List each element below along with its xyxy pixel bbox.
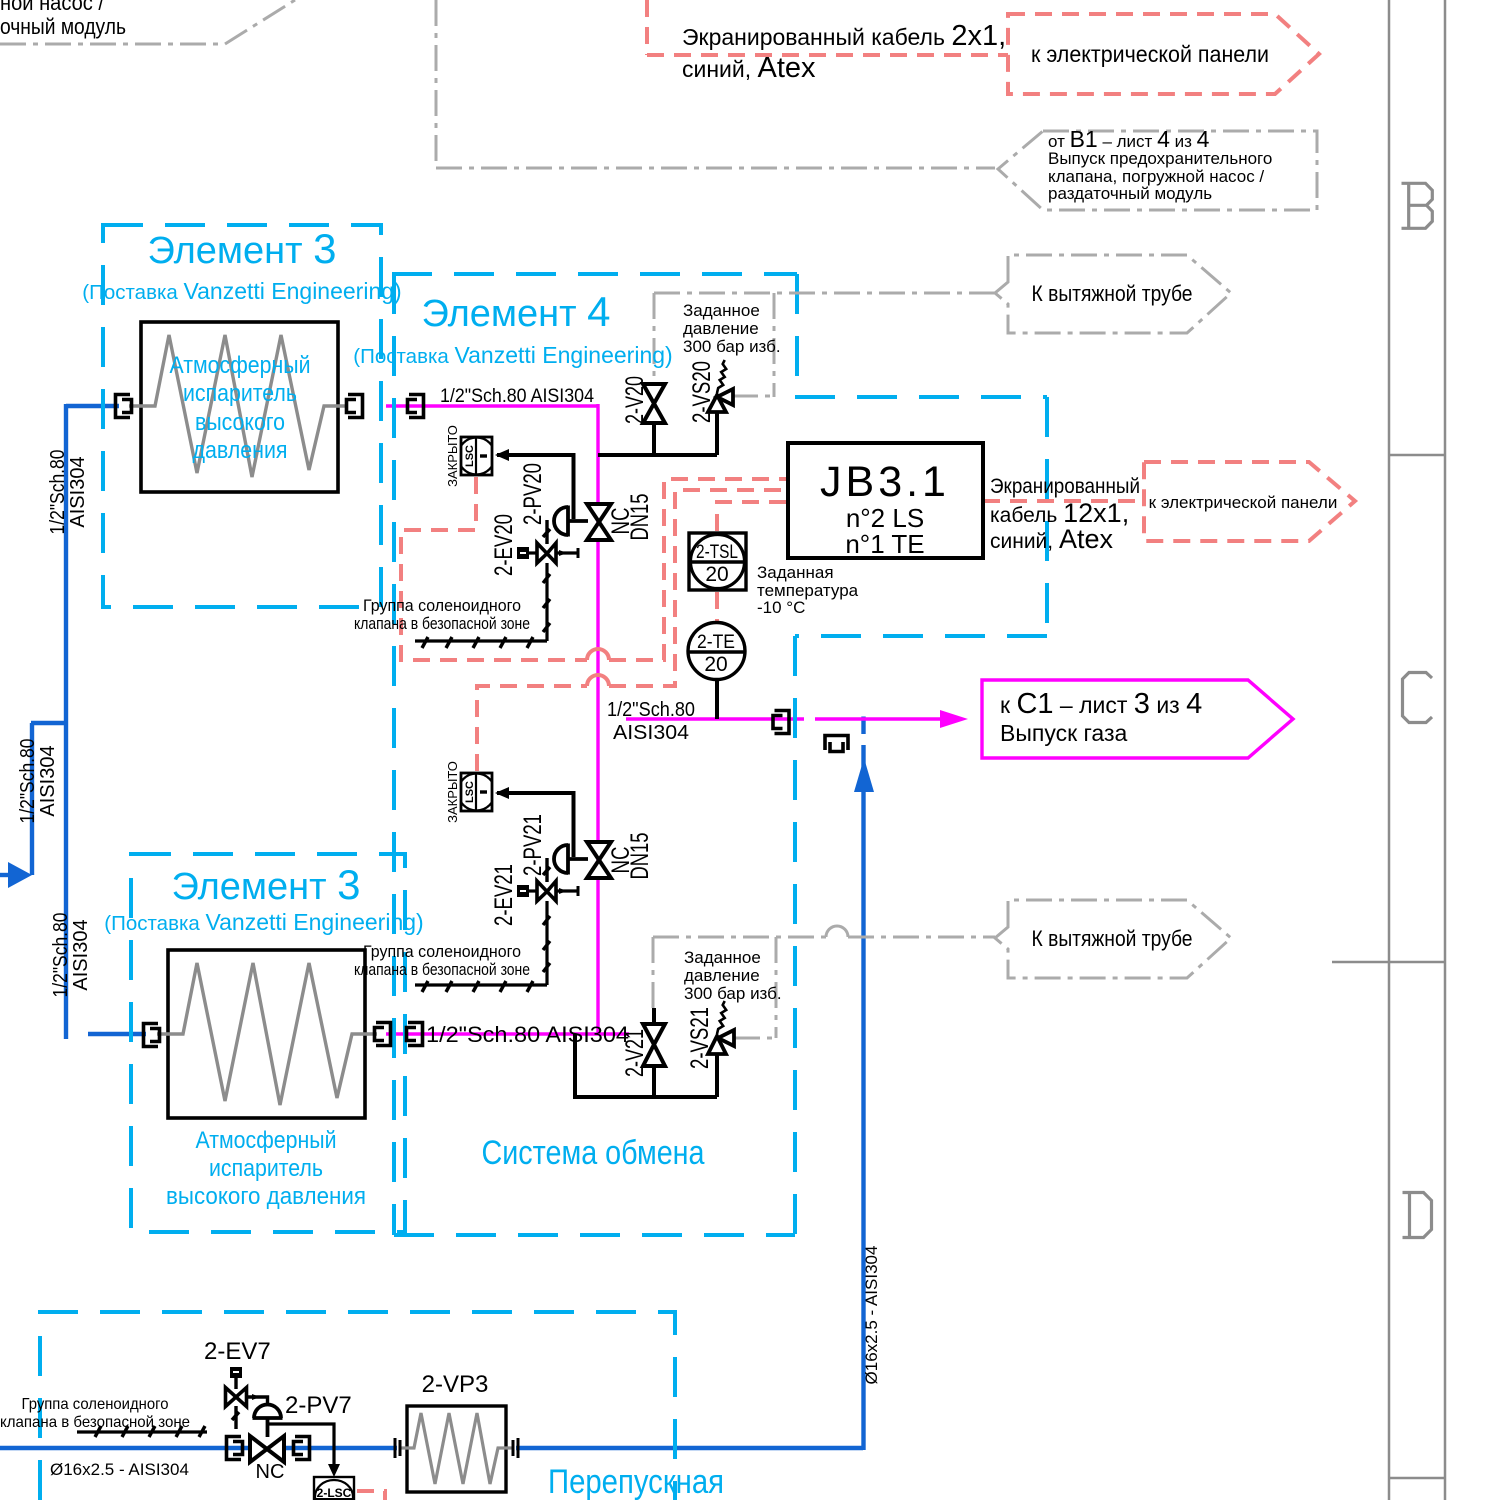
node set-pressure annotation box lower right edge	[775, 937, 778, 1038]
svg-text:LSC: LSC	[464, 781, 476, 803]
node arrow flag to electrical panel top	[1008, 14, 1319, 94]
wire shielded cable 2x1 vertical top	[645, 0, 649, 55]
wire blue bypass line right	[516, 1446, 863, 1450]
svg-text:2-TSL: 2-TSL	[696, 541, 738, 563]
svg-text:2-EV21: 2-EV21	[490, 864, 518, 926]
node arrow flag to electrical panel middle	[1144, 462, 1355, 541]
svg-text:высокого: высокого	[195, 409, 285, 436]
instrument 2-TE 20	[688, 623, 745, 680]
wire LSC20 signal line	[497, 455, 574, 519]
svg-text:Группа соленоидного: Группа соленоидного	[363, 943, 521, 961]
bypass control valve 2-PV7 NC	[250, 1405, 340, 1478]
node Element 4 top edge	[392, 272, 797, 276]
node arrow flag to exhaust pipe lower	[995, 900, 1231, 978]
svg-text:к C1 – лист 3 из 4: к C1 – лист 3 из 4	[1000, 688, 1202, 720]
wire black tee vaporizer2 outlet down	[575, 1034, 717, 1097]
wire gray dash-dot from top-left arrow	[0, 0, 295, 44]
coupling union rotated near blue riser	[825, 736, 848, 752]
svg-text:2-V20: 2-V20	[621, 376, 649, 424]
wire signal 2-LSC7 box corner bottom	[357, 1491, 385, 1500]
svg-text:2-EV20: 2-EV20	[490, 514, 518, 576]
svg-text:ЗАКРЫТО: ЗАКРЫТО	[445, 425, 460, 487]
svg-text:Элемент 4: Элемент 4	[422, 288, 611, 335]
wire gray dash-dot to exhaust pipe upper	[654, 292, 995, 295]
coupling union at vaporizer 1 outlet	[347, 395, 363, 418]
coupling union right of 2-PV7	[294, 1437, 310, 1460]
solenoid valve 2-EV21	[517, 858, 578, 901]
node set-pressure annotation box lower bottom edge	[734, 1037, 776, 1040]
node Element 4 step vertical	[795, 274, 799, 397]
node exchange system bottom edge	[394, 1233, 795, 1237]
control valve 2-PV21 NC DN15	[554, 842, 611, 878]
svg-text:2-LSC: 2-LSC	[317, 1486, 352, 1500]
svg-text:клапана в безопасной зоне: клапана в безопасной зоне	[0, 1414, 190, 1431]
wire gray dash-dot from B1 vertical	[435, 0, 438, 168]
svg-text:2-VP3: 2-VP3	[422, 1371, 489, 1398]
svg-text:Система обмена: Система обмена	[482, 1134, 705, 1172]
instrument 2-TSL 20	[689, 533, 746, 590]
svg-text:Группа соленоидного: Группа соленоидного	[22, 1396, 169, 1413]
svg-text:высокого давления: высокого давления	[166, 1183, 366, 1210]
svg-text:Перепускная: Перепускная	[548, 1463, 724, 1500]
node set-pressure annotation box upper bottom edge	[732, 395, 774, 398]
valve 2-V20	[643, 384, 665, 423]
instrument 2-LSC 7	[314, 1477, 354, 1500]
frame zone letter D	[1403, 1193, 1432, 1238]
svg-text:испаритель: испаритель	[183, 380, 297, 407]
svg-text:Элемент 3: Элемент 3	[148, 225, 337, 272]
svg-text:Атмосферный: Атмосферный	[196, 1127, 337, 1154]
svg-text:AISI304: AISI304	[613, 722, 689, 744]
svg-text:Атмосферный: Атмосферный	[170, 352, 311, 379]
wire 2-V21 top stub	[652, 1008, 656, 1024]
svg-text:300 бар изб.: 300 бар изб.	[683, 337, 781, 356]
wire blue supply header vertical main	[64, 404, 68, 1039]
LSC21 arrow head	[495, 787, 509, 799]
coupling union at vaporizer 1 inlet	[116, 395, 132, 418]
svg-text:Заданная: Заданная	[757, 563, 834, 582]
node arrow flag from B1 sheet 4 of 4	[998, 131, 1317, 210]
svg-text:клапана в безопасной зоне: клапана в безопасной зоне	[354, 961, 530, 979]
wire blue riser to gas outlet	[861, 745, 865, 1450]
wire magenta gas outlet line part 2	[815, 717, 947, 720]
svg-text:Заданное: Заданное	[683, 301, 760, 320]
svg-text:к электрической панели: к электрической панели	[1149, 493, 1338, 512]
node arrow flag to exhaust pipe upper	[995, 255, 1231, 333]
blue flow arrow into branch	[8, 862, 32, 888]
electrical signal line with ticks EV20 group	[415, 563, 550, 648]
coupling union left of 2-PV7	[227, 1437, 243, 1460]
wire 2-V20 riser	[652, 423, 656, 455]
svg-text:Выпуск предохранительного: Выпуск предохранительного	[1048, 149, 1272, 168]
svg-text:(Поставка Vanzetti Engineering: (Поставка Vanzetti Engineering)	[353, 342, 672, 368]
wire black vent manifold upper	[598, 453, 717, 457]
wire 2-VS20 outlet gray stub	[733, 395, 756, 398]
svg-text:2-PV21: 2-PV21	[519, 814, 547, 876]
coupling union at vaporizer 2 outlet	[375, 1023, 391, 1046]
coupling short at 2-VP3 outlet	[513, 1438, 518, 1458]
wire signal TSL to JB3.1	[717, 502, 786, 531]
wire shielded cable 2x1 to electrical panel	[647, 53, 1008, 57]
svg-text:(Поставка Vanzetti Engineering: (Поставка Vanzetti Engineering)	[104, 909, 423, 935]
coupling union on magenta line bottom	[407, 1023, 423, 1046]
svg-text:1/2"Sch.80: 1/2"Sch.80	[17, 739, 39, 824]
frame zone divider B/C	[1389, 454, 1445, 457]
svg-text:Ø16x2.5 - AISI304: Ø16x2.5 - AISI304	[862, 1246, 881, 1385]
node arrow flag to C1 sheet 3 gas outlet	[982, 680, 1293, 758]
drawing frame right border outer line	[1444, 0, 1447, 1500]
frame zone letter B	[1402, 183, 1433, 228]
svg-text:2-PV7: 2-PV7	[285, 1392, 352, 1419]
electrical signal line with ticks EV7 group	[77, 1426, 207, 1437]
wire gray dash-dot to exhaust pipe lower with hop	[653, 936, 995, 939]
svg-text:Ø16x2.5 - AISI304: Ø16x2.5 - AISI304	[50, 1460, 189, 1479]
svg-text:2-VS21: 2-VS21	[686, 1007, 714, 1069]
wire 2-VS21 outlet gray stub	[734, 1037, 757, 1040]
svg-text:1/2"Sch.80: 1/2"Sch.80	[50, 913, 72, 998]
svg-text:AISI304: AISI304	[67, 456, 89, 527]
drawing frame right border inner line	[1388, 0, 1391, 1500]
wire 2-V21 riser	[652, 1066, 656, 1097]
wire shielded cable 12x1 from JB3.1	[983, 499, 1144, 503]
frame zone letter C	[1403, 673, 1433, 723]
junction box JB3.1	[788, 443, 983, 558]
svg-text:давления: давления	[193, 437, 288, 464]
wire blue riser top stub	[861, 717, 865, 735]
svg-text:Заданное: Заданное	[684, 948, 761, 967]
svg-text:Выпуск газа: Выпуск газа	[1000, 720, 1127, 746]
svg-text:Группа соленоидного: Группа соленоидного	[363, 597, 521, 615]
svg-text:Экранированный кабель 2x1,: Экранированный кабель 2x1,	[682, 20, 1006, 52]
svg-text:2-EV7: 2-EV7	[204, 1338, 271, 1365]
svg-text:JB3.1: JB3.1	[820, 458, 950, 506]
wire blue branch horizontal	[31, 721, 66, 725]
wire 2-VS21 riser	[715, 1054, 719, 1097]
coupling union on magenta line top	[408, 395, 424, 418]
node Element 4 upper right edge	[795, 395, 1047, 399]
bypass solenoid valve 2-EV7	[226, 1367, 268, 1429]
wire signal TSL to TE	[715, 592, 719, 621]
wire signal LSC20 to JB3.1	[401, 477, 786, 660]
svg-text:2-VS20: 2-VS20	[688, 361, 716, 423]
wire LSC21 signal line	[497, 793, 574, 857]
node Element 3 lower dashed box	[131, 854, 405, 1232]
svg-text:-10 °C: -10 °C	[757, 598, 805, 617]
svg-text:К вытяжной трубе: К вытяжной трубе	[1032, 926, 1193, 951]
wire blue bypass line bottom left	[0, 1446, 252, 1450]
node Element 4 right edge	[1045, 397, 1049, 636]
svg-text:AISI304: AISI304	[37, 745, 59, 816]
svg-text:Экранированный: Экранированный	[990, 475, 1140, 498]
svg-text:2-TE: 2-TE	[697, 631, 735, 653]
heat exchanger HP vaporizer 2 (Element 3 lower)	[157, 950, 377, 1118]
coupling short at 2-VP3 inlet	[395, 1438, 400, 1458]
svg-text:ной насос /: ной насос /	[0, 0, 105, 15]
electrical signal line with ticks EV21 group	[415, 901, 550, 992]
blue flow arrow up on riser	[854, 758, 874, 792]
svg-text:NC: NC	[256, 1461, 285, 1483]
heat exchanger HP vaporizer 1 (Element 3 upper)	[129, 322, 348, 492]
svg-text:раздаточный модуль: раздаточный модуль	[1048, 184, 1212, 203]
node bypass group dashed box top edge	[40, 1312, 675, 1500]
wire 2-TE thermowell connection	[715, 679, 719, 719]
wire 2-VS20 riser	[715, 412, 719, 455]
svg-text:К вытяжной трубе: К вытяжной трубе	[1032, 281, 1193, 306]
svg-text:давление: давление	[684, 966, 760, 985]
svg-text:300 бар изб.: 300 бар изб.	[684, 984, 782, 1003]
svg-text:1/2"Sch.80: 1/2"Sch.80	[47, 450, 69, 535]
coupling union on gas outlet line	[773, 711, 789, 734]
wire blue supply header horizontal to HP vaporizer 1 inlet	[66, 404, 119, 408]
svg-text:Элемент 3: Элемент 3	[172, 861, 361, 908]
control valve 2-PV20 NC DN15	[554, 504, 611, 540]
svg-text:к электрической панели: к электрической панели	[1031, 41, 1269, 67]
svg-text:DN15: DN15	[626, 833, 654, 880]
instrument limit switch LSC21 closed	[458, 773, 495, 811]
wire magenta gas outlet line	[626, 717, 804, 720]
wire blue inlet stub to HP vaporizer 2	[88, 1032, 146, 1036]
node Element 4 / exchange system dashed outline left edge	[392, 274, 396, 1235]
svg-text:1/2"Sch.80: 1/2"Sch.80	[607, 699, 695, 721]
svg-text:давление: давление	[683, 319, 759, 338]
svg-text:ЗАКРЫТО: ЗАКРЫТО	[445, 761, 460, 823]
frame zone divider D bottom	[1389, 1477, 1445, 1480]
svg-text:20: 20	[704, 653, 727, 676]
wire signal LSC21 to JB3.1	[477, 490, 786, 771]
svg-text:(Поставка Vanzetti Engineering: (Поставка Vanzetti Engineering)	[82, 278, 401, 304]
svg-text:клапана в безопасной зоне: клапана в безопасной зоне	[354, 615, 530, 633]
wire blue inlet stub from left edge	[0, 873, 10, 877]
wire magenta vertical process line	[596, 404, 599, 1034]
svg-text:1/2"Sch.80 AISI304: 1/2"Sch.80 AISI304	[426, 1022, 629, 1047]
node Element 4 bottom edge (JB area)	[795, 634, 1047, 638]
svg-text:очный модуль: очный модуль	[0, 14, 126, 39]
svg-text:синий, Atex: синий, Atex	[682, 52, 816, 84]
node set-pressure annotation box upper left edge	[653, 293, 656, 378]
wire blue bypass line middle	[282, 1446, 397, 1450]
svg-text:испаритель: испаритель	[209, 1155, 323, 1182]
LSC20 arrow head	[495, 449, 509, 461]
wire magenta from vaporizer 2 outlet	[386, 1032, 629, 1035]
safety valve 2-VS20	[708, 360, 733, 412]
svg-text:DN15: DN15	[626, 494, 654, 541]
svg-text:1/2"Sch.80 AISI304: 1/2"Sch.80 AISI304	[440, 386, 594, 407]
svg-text:n°1 TE: n°1 TE	[845, 529, 924, 559]
svg-text:AISI304: AISI304	[70, 919, 92, 990]
safety valve 2-VS21	[708, 1001, 734, 1054]
wire blue branch vertical	[30, 723, 34, 875]
valve 2-V21	[643, 1024, 665, 1066]
node exchange system right edge	[793, 636, 797, 1235]
svg-text:2-PV20: 2-PV20	[519, 463, 547, 525]
instrument limit switch LSC20 closed	[458, 437, 495, 475]
node set-pressure annotation box upper right edge	[773, 293, 776, 397]
svg-text:LSC: LSC	[464, 445, 476, 467]
magenta flow arrow to gas outlet	[940, 710, 968, 728]
wire magenta from vaporizer 1 outlet	[386, 404, 598, 407]
frame zone divider C/D with tick	[1332, 961, 1445, 964]
svg-text:20: 20	[705, 563, 728, 586]
heat exchanger 2-VP3	[401, 1406, 512, 1492]
coupling union at vaporizer 2 inlet	[144, 1024, 160, 1047]
node Element 3 upper dashed box	[103, 225, 381, 607]
wire gray dash-dot from B1 horizontal to arrow	[436, 167, 995, 170]
node set-pressure annotation box lower left edge	[652, 937, 655, 1008]
solenoid valve 2-EV20	[517, 520, 578, 563]
